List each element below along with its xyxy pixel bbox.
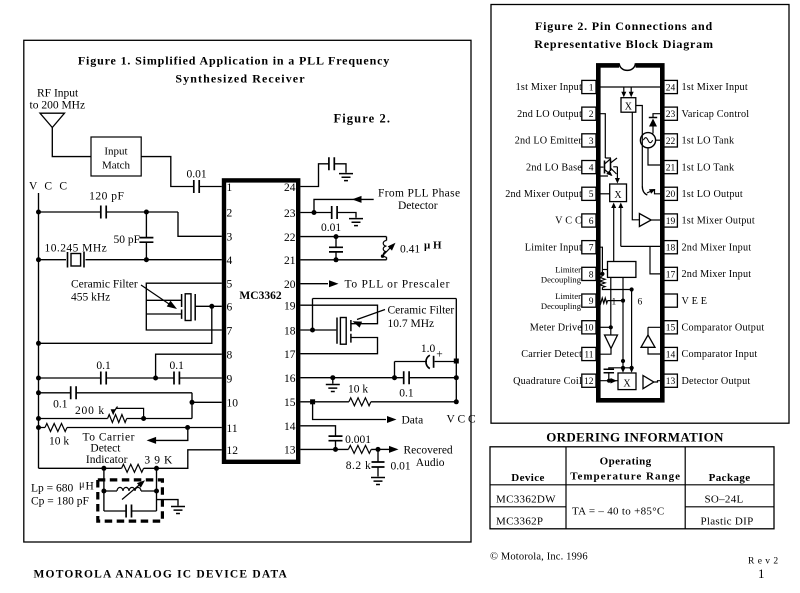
transistor Q1 1st LO output [642,186,647,195]
svg-text:1st Mixer Input: 1st Mixer Input [516,82,582,93]
pin box 2 [582,107,596,120]
arrow Data output [313,402,386,420]
svg-text:V C C: V C C [555,216,582,227]
capacitor 0.1 c [71,386,76,399]
svg-text:Limiter Input: Limiter Input [525,242,582,253]
svg-text:Cp = 180 pF: Cp = 180 pF [31,496,89,508]
junction dots pin2 row [36,210,41,215]
svg-text:0.1: 0.1 [96,360,111,372]
capacitor 0.1 a [101,372,106,385]
svg-text:Package: Package [709,472,751,484]
svg-text:Quadrature Coil: Quadrature Coil [513,376,582,387]
wire pin24 to bypass cap [300,164,346,187]
svg-text:MC3362P: MC3362P [496,516,543,528]
svg-text:MOTOROLA ANALOG IC DEVICE DATA: MOTOROLA ANALOG IC DEVICE DATA [34,569,289,581]
svg-text:1: 1 [227,182,233,194]
svg-text:16: 16 [284,373,296,385]
wire pin22 row [300,236,386,238]
wire mixer M1 to LO chain [636,106,643,187]
svg-text:2: 2 [227,207,233,219]
svg-text:Match: Match [102,160,131,172]
wire limiter bottom stubs [611,277,632,367]
svg-text:1: 1 [612,298,617,308]
svg-text:1: 1 [589,83,594,93]
svg-text:13: 13 [284,445,296,457]
pin box 20 [664,187,678,200]
svg-text:Limiter: Limiter [555,291,581,301]
border frame of Figure 1 panel [24,40,471,542]
svg-text:+: + [436,349,443,361]
svg-text:0.01: 0.01 [186,169,206,181]
svg-text:11: 11 [227,423,238,435]
op-amp U1 MC3362 IC body [224,180,298,461]
svg-text:5: 5 [227,279,233,291]
svg-text:Varicap Control: Varicap Control [682,109,750,120]
ground pin23 [349,219,363,226]
svg-text:1st LO Output: 1st LO Output [682,189,743,200]
arrow to 10.7 filter [357,310,385,320]
svg-text:17: 17 [284,349,296,361]
svg-text:4: 4 [589,164,594,174]
svg-text:10 k: 10 k [348,384,368,396]
wire oscillator to pin22 [656,139,664,141]
svg-text:to 200 MHz: to 200 MHz [30,100,86,112]
svg-text:5: 5 [589,190,594,200]
svg-text:4: 4 [227,255,233,267]
svg-text:μ: μ [79,480,85,491]
svg-text:Recovered: Recovered [404,444,453,456]
svg-text:15: 15 [284,397,296,409]
svg-text:7: 7 [589,244,594,254]
svg-text:50 pF: 50 pF [113,234,140,246]
wire pin13 row [300,448,378,450]
svg-text:10.245 MHz: 10.245 MHz [45,243,108,255]
svg-text:2nd Mixer Input: 2nd Mixer Input [682,242,752,253]
mixer M1 box [621,98,636,113]
capacitor 120 pF [101,206,106,219]
antenna [40,113,65,127]
wire C1 to pin 1 [199,186,222,188]
limiter block [608,262,636,278]
capacitor between pin22 pin21 [335,237,337,260]
svg-text:Input: Input [104,146,127,158]
svg-text:Indicator: Indicator [86,454,128,466]
svg-text:2: 2 [589,110,594,120]
svg-text:V C C: V C C [29,181,69,193]
transistor Q2 Q3 2nd LO [604,161,606,174]
capacitor 0.001 [329,436,343,441]
wire pin4 to 2nd LO base [596,166,604,168]
svg-text:10 k: 10 k [49,436,69,448]
pin box 24 [664,80,678,93]
capacitor 0.1 pin16 [404,371,409,384]
svg-text:19: 19 [666,217,676,227]
ground output [371,478,385,485]
svg-text:15: 15 [666,324,676,334]
svg-text:1st Mixer Input: 1st Mixer Input [682,82,748,93]
svg-text:0.001: 0.001 [345,434,371,446]
quadrature cap [604,369,615,373]
svg-text:To PLL or Prescaler: To PLL or Prescaler [345,279,451,291]
wire pin19 to filter top [300,305,377,324]
wire pin14 to coupling cap [300,426,335,450]
svg-text:Figure 1. Simplified Applicati: Figure 1. Simplified Application in a PL… [78,54,390,68]
capacitor Cp [104,510,157,512]
svg-text:10: 10 [227,398,239,410]
pin box 22 [664,134,678,147]
tank circuit verticals [104,468,157,511]
wire pin15 row [300,401,456,403]
oscillator G1 [640,133,655,148]
svg-text:Plastic DIP: Plastic DIP [700,516,753,528]
svg-text:R e v 2: R e v 2 [748,557,779,567]
svg-text:17: 17 [666,270,676,280]
svg-text:8.2 k: 8.2 k [346,460,372,472]
svg-text:1.0: 1.0 [421,343,436,355]
varicap diode D1 [653,114,664,118]
svg-text:Meter Drive: Meter Drive [530,323,583,334]
svg-text:Device: Device [511,472,545,484]
svg-text:ORDERING INFORMATION: ORDERING INFORMATION [546,430,724,445]
wire VCC rail [38,193,40,468]
svg-text:X: X [625,102,633,113]
pin box 11 [582,347,596,360]
wire 200k row [39,418,193,420]
svg-text:Comparator Input: Comparator Input [682,349,758,360]
ordering table frame [490,447,774,529]
pin box 7 [582,241,596,254]
potentiometer 200 k [108,415,127,423]
svg-text:0.1: 0.1 [53,398,68,410]
svg-text:7: 7 [227,325,233,337]
wire pin12 loop [39,450,222,469]
svg-text:Figure 2.: Figure 2. [334,112,392,126]
arrow to carrier detect indicator [150,428,188,441]
detector buffer A2 [643,376,654,389]
wire pin5 loop to filter [146,283,222,330]
pin box 16 [664,294,678,307]
svg-text:From PLL Phase: From PLL Phase [378,188,460,200]
wire pin23 row [300,213,356,218]
wire comparator out pin15 [648,327,664,335]
svg-text:1st Mixer Output: 1st Mixer Output [682,216,755,227]
capacitor bypass top [329,157,334,170]
wire pin3 to 2nd LO [596,140,608,176]
resistor decoupling vertical [600,277,606,288]
svg-text:23: 23 [666,110,676,120]
svg-text:Figure 2. Pin Connections and: Figure 2. Pin Connections and [535,19,713,33]
svg-text:9: 9 [227,373,233,385]
svg-text:18: 18 [284,325,296,337]
svg-text:SO–24L: SO–24L [704,494,743,506]
wire pin9 row [39,377,222,379]
wire pin1 pin24 bus [596,86,664,88]
svg-text:RF Input: RF Input [37,88,79,100]
svg-text:10: 10 [584,324,594,334]
capacitor 0.01 output [377,449,379,476]
svg-text:11: 11 [584,350,593,360]
wire pin6 node down to VCC rail [39,306,212,343]
resistor 10 k left [45,424,67,432]
svg-text:Audio: Audio [416,457,445,469]
capacitor 0.01 pin23 [332,206,337,219]
svg-text:14: 14 [666,350,676,360]
svg-text:6: 6 [227,302,233,314]
svg-text:μ H: μ H [424,240,442,252]
wire 1.0 cap row [395,362,457,378]
svg-text:3 9 K: 3 9 K [144,455,173,467]
svg-text:18: 18 [666,244,676,254]
wire comparator in pin14 [648,347,664,354]
pin box 14 [664,347,678,360]
svg-text:12: 12 [227,445,239,457]
svg-text:20: 20 [284,279,296,291]
svg-text:0.41: 0.41 [400,244,420,256]
svg-text:6: 6 [589,217,594,227]
svg-text:Representative Block Diagram: Representative Block Diagram [534,37,713,51]
svg-text:Decoupling: Decoupling [541,274,582,284]
pin box 4 [582,161,596,174]
wire pin8 loop [156,354,222,378]
wire pin18 row [300,329,336,331]
wire from PLL phase detector [314,199,374,212]
svg-text:0.1: 0.1 [170,360,185,372]
svg-text:V C C: V C C [447,414,477,426]
wire pin9 row [596,300,623,302]
pin box 17 [664,267,678,280]
wire pin11 carrier detect [596,349,611,355]
svg-text:Data: Data [402,415,424,427]
svg-text:To Carrier: To Carrier [83,431,135,443]
svg-text:Limiter: Limiter [555,264,581,274]
wire antenna to input match [52,128,91,157]
svg-text:0.01: 0.01 [321,222,341,234]
svg-text:Detector: Detector [398,200,438,212]
svg-text:9: 9 [589,297,594,307]
pin box 15 [664,321,678,334]
svg-text:Detector Output: Detector Output [682,376,751,387]
capacitor 0.01 at pin 1 [194,180,199,193]
wire IF line to buffer [632,112,639,220]
crystal 10.245 MHz [68,252,85,268]
svg-text:10.7 MHz: 10.7 MHz [388,318,435,330]
svg-text:TA = – 40 to +85°C: TA = – 40 to +85°C [572,506,665,518]
svg-text:X: X [623,378,631,389]
wire pin7 to limiter [596,247,602,274]
svg-text:X: X [614,190,622,201]
arrow to PLL or prescaler [300,283,328,285]
svg-text:H: H [86,481,94,493]
svg-text:2nd LO Output: 2nd LO Output [517,109,582,120]
svg-text:14: 14 [284,421,296,433]
dashed tank box [98,480,163,521]
capacitor 0.1 b [174,372,179,385]
svg-text:© Motorola, Inc. 1996: © Motorola, Inc. 1996 [490,552,588,563]
svg-text:24: 24 [284,182,296,194]
pin box 18 [664,241,678,254]
wire pin2 to 2nd LO [596,114,605,158]
capacitor 1.0 polarized [426,355,430,368]
resistor 8.2 k [348,445,371,453]
meter drive amp triangle [605,335,618,349]
svg-text:2nd LO Emitter: 2nd LO Emitter [515,136,583,147]
svg-text:22: 22 [666,137,676,147]
svg-text:6: 6 [638,298,643,308]
arrow recovered audio [378,448,389,450]
pin box 19 [664,214,678,227]
wire filter bottom to pin17 [300,338,377,354]
wire input match to C1 [141,157,194,187]
pin box 12 [582,374,596,387]
svg-text:3: 3 [227,232,233,244]
wire pin18 node loop to VCC line [313,299,457,331]
svg-text:455 kHz: 455 kHz [71,292,110,304]
ground pin16 [332,378,334,384]
ceramic filter 10.7 MHz symbol [337,318,351,344]
svg-text:Operating: Operating [600,456,652,468]
wire pin11 row [39,427,222,429]
pin box 3 [582,134,596,147]
svg-text:Decoupling: Decoupling [541,301,582,311]
pin box 8 [582,267,596,280]
wire VCC vertical right [455,299,457,402]
wire oscillator to pin21 [648,148,664,165]
svg-text:21: 21 [284,255,296,267]
mixer M1 inputs [624,87,631,94]
svg-text:2nd LO Base: 2nd LO Base [526,162,582,173]
wire filter to pin6 [195,305,222,307]
svg-text:1st LO Tank: 1st LO Tank [682,162,736,173]
wire pin16 row [300,377,456,379]
pin box 9 [582,294,596,307]
wire pin17 branch [650,246,664,274]
wire pin4 row [39,259,222,261]
svg-text:2nd Mixer Output: 2nd Mixer Output [505,189,582,200]
junction dots pin4 row [36,257,41,262]
border frame of Figure 2 panel [491,5,789,424]
svg-text:21: 21 [666,164,676,174]
svg-text:Detect: Detect [90,443,121,455]
quadrature mixer M3 inputs [623,368,632,370]
resistor 39 K [122,464,144,472]
wire pin10 meter drive [596,326,611,328]
pin box 10 [582,321,596,334]
svg-text:Ceramic Filter: Ceramic Filter [388,305,455,317]
op-amp U2 fig2 DIP body [598,65,662,400]
variable inductor 0.41 uH [386,237,388,260]
wire pin21 row [300,259,386,261]
svg-text:23: 23 [284,208,296,220]
svg-text:120 pF: 120 pF [89,191,124,203]
svg-text:MC3362: MC3362 [239,290,281,302]
wire pin5 to mixer M2 [596,193,610,195]
capacitor 50 pF [145,212,147,260]
svg-text:Comparator Output: Comparator Output [682,323,765,334]
pin box 21 [664,161,678,174]
pin box 13 [664,374,678,387]
ceramic filter 455 kHz symbol [182,294,196,321]
svg-text:1st LO Tank: 1st LO Tank [682,136,736,147]
wire 0.1 row to pin10 [39,393,222,419]
svg-text:3: 3 [589,137,594,147]
wire pin12 quadrature coil [596,380,618,382]
mixer M3 box [618,373,636,390]
pin box 6 [582,214,596,227]
pin box 1 [582,80,596,93]
svg-text:Temperature Range: Temperature Range [570,471,681,483]
svg-text:12: 12 [584,377,594,387]
ground tank [171,507,185,514]
input match block [91,137,141,176]
ground top bypass [339,174,353,181]
svg-text:MC3362DW: MC3362DW [496,494,556,506]
comparator triangle [641,335,655,347]
resistor 10 k right [349,398,371,406]
wire mixer M2 inputs from below [611,203,616,209]
resistor pin9 [599,298,608,303]
mixer M2 box [610,184,627,202]
pin box 5 [582,187,596,200]
svg-text:8: 8 [589,270,594,280]
svg-text:24: 24 [666,83,676,93]
svg-text:Ceramic Filter: Ceramic Filter [71,279,138,291]
pin box 23 [664,107,678,120]
DIP notch [619,62,636,70]
wire pin2 row [39,212,222,236]
svg-text:2nd Mixer Input: 2nd Mixer Input [682,269,752,280]
svg-text:20: 20 [666,190,676,200]
svg-text:200 k: 200 k [75,405,105,417]
svg-text:0.01: 0.01 [391,460,411,472]
svg-text:0.1: 0.1 [399,388,414,400]
arrow to 455k filter [141,285,172,306]
svg-text:Carrier Detect: Carrier Detect [521,349,582,360]
svg-text:19: 19 [284,301,296,313]
svg-text:Lp = 680: Lp = 680 [31,483,74,495]
wire tank to ground [157,500,179,506]
variable inductor Lp [104,490,157,492]
svg-text:Synthesized Receiver: Synthesized Receiver [175,71,305,85]
svg-text:V E E: V E E [682,296,708,307]
svg-text:8: 8 [227,350,233,362]
svg-text:13: 13 [666,377,676,387]
svg-text:22: 22 [284,232,296,244]
svg-text:1: 1 [758,566,765,581]
buffer A1 to pin19 [639,214,651,227]
